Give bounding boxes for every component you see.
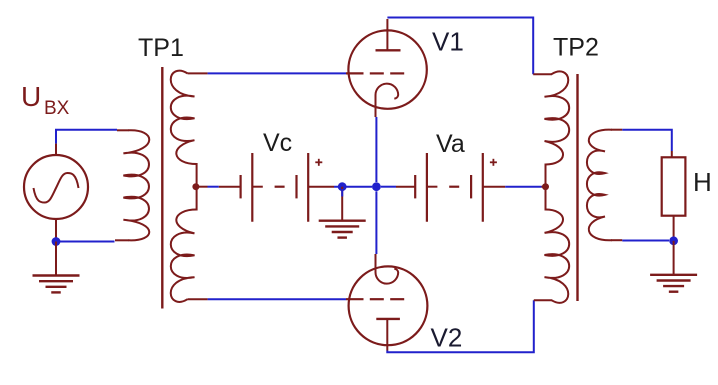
wire TP2 sec top to H (622, 130, 672, 151)
TP1 secondary upper winding (171, 71, 197, 164)
V1 grid dashed (346, 72, 364, 74)
battery Vc (240, 175, 242, 198)
svg-text:Va: Va (436, 130, 465, 158)
V2 grid dashed (346, 298, 364, 300)
junction dot Vc-ground (338, 182, 347, 191)
sine wave inside source (34, 173, 79, 203)
wire Va to TP2 tap (483, 186, 505, 188)
wire Vc to ground node (308, 186, 334, 188)
wire V1 grid (208, 72, 346, 74)
wire source bottom (56, 238, 115, 242)
battery Va (414, 175, 416, 198)
wire V2 anode to TP2 bottom (387, 300, 534, 352)
svg-text:H: H (693, 167, 712, 197)
V1 anode (386, 19, 388, 50)
TP1 primary winding (123, 130, 149, 240)
wire V2 grid (208, 298, 346, 300)
wire V2 cathode up (375, 191, 377, 254)
H bottom lead (673, 216, 675, 237)
TP1 core (161, 67, 163, 309)
tube V1 envelope (348, 30, 426, 108)
svg-text:BX: BX (44, 98, 70, 119)
junction dot source-ground (52, 237, 61, 246)
ground center (341, 187, 343, 221)
wire TP2 sec bottom to H (622, 240, 669, 242)
svg-text:TP2: TP2 (553, 34, 599, 62)
TP2 core (576, 74, 578, 301)
TP2 primary lower winding (545, 210, 570, 303)
AC source U_BX circle (24, 155, 88, 219)
wire node to Va (381, 186, 396, 188)
V2 cathode (376, 254, 399, 284)
junction dot H-ground (669, 236, 678, 245)
V1 cathode (376, 84, 399, 117)
H top lead (671, 151, 673, 157)
svg-text:V1: V1 (432, 27, 464, 57)
V2 anode (376, 318, 400, 320)
wire V1 cathode down (375, 117, 377, 182)
TP1 center tap dot (192, 183, 199, 190)
node center cathode junction (372, 182, 381, 191)
TP1 secondary lower winding (171, 210, 197, 302)
TP2 primary upper winding (545, 71, 570, 164)
svg-text:U: U (21, 81, 41, 112)
tube V2 envelope (349, 266, 428, 345)
TP2 secondary winding (587, 130, 612, 241)
svg-text:TP1: TP1 (138, 34, 184, 62)
TP2 center tap dot (542, 183, 549, 190)
ground left (55, 242, 57, 276)
node: source top wire (56, 130, 117, 144)
wire TP1 tap to Vc (199, 186, 208, 188)
resistor H (662, 157, 686, 215)
svg-text:Vc: Vc (263, 129, 292, 157)
wire V1 anode to TP2 top (387, 18, 533, 75)
svg-text:V2: V2 (431, 323, 463, 353)
ground right (673, 241, 675, 275)
